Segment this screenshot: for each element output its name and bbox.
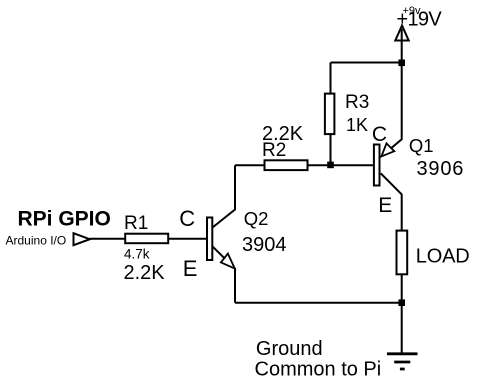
resistor LOAD bbox=[397, 231, 408, 275]
svg-text:R2: R2 bbox=[262, 140, 286, 161]
transistor Q1 bbox=[374, 63, 402, 231]
svg-text:Q2: Q2 bbox=[244, 208, 269, 229]
svg-text:R1: R1 bbox=[124, 213, 148, 234]
node junction at +19V rail bbox=[398, 60, 405, 67]
wire LOAD bottom lead bbox=[401, 274, 403, 302]
node junction bottom bbox=[398, 299, 405, 306]
svg-text:E: E bbox=[183, 256, 198, 281]
svg-text:Ground: Ground bbox=[256, 338, 323, 360]
input port triangle bbox=[74, 233, 90, 245]
power symbol arrow bbox=[395, 26, 408, 63]
resistor R2 bbox=[265, 160, 308, 170]
svg-text:LOAD: LOAD bbox=[416, 246, 470, 268]
svg-text:C: C bbox=[372, 123, 387, 146]
svg-text:Arduino I/O: Arduino I/O bbox=[6, 234, 67, 248]
svg-text:Common to Pi: Common to Pi bbox=[255, 358, 382, 378]
wire R2 to Q1 base bbox=[309, 164, 373, 166]
ground bbox=[387, 354, 418, 369]
wire input to R1 bbox=[90, 238, 125, 240]
wire R2 left lead bbox=[235, 164, 264, 166]
wire R1 to Q2 base bbox=[168, 238, 206, 240]
label Ground Common to Pi bbox=[255, 338, 382, 378]
svg-text:4.7k: 4.7k bbox=[124, 246, 150, 261]
svg-text:2.2K: 2.2K bbox=[124, 262, 166, 284]
svg-text:C: C bbox=[179, 206, 195, 231]
wire top horizontal bbox=[331, 62, 402, 64]
wire bottom emitter to load junction bbox=[235, 302, 402, 304]
svg-text:E: E bbox=[378, 194, 392, 217]
resistor R3 bbox=[325, 94, 335, 135]
transistor Q2 bbox=[207, 165, 235, 303]
svg-text:Q1: Q1 bbox=[409, 135, 434, 156]
wire to ground bbox=[401, 303, 403, 354]
svg-text:3904: 3904 bbox=[242, 234, 287, 256]
resistor R1 bbox=[125, 234, 168, 244]
wire R3 bottom lead bbox=[330, 135, 332, 165]
svg-text:RPi GPIO: RPi GPIO bbox=[18, 207, 111, 230]
svg-text:1K: 1K bbox=[346, 115, 368, 135]
wire R3 top lead bbox=[330, 63, 332, 94]
svg-text:R3: R3 bbox=[345, 92, 369, 113]
svg-text:3906: 3906 bbox=[417, 158, 465, 180]
node junction R3/R2/Q1 base bbox=[327, 162, 334, 169]
